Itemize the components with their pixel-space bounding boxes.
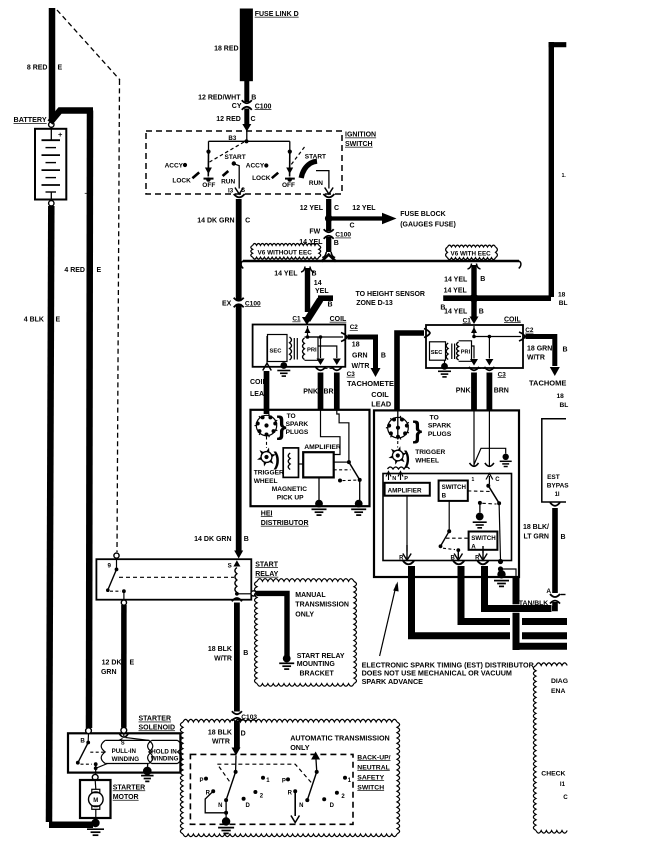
svg-text:BACK-UP/: BACK-UP/ xyxy=(357,754,390,761)
wire 18 BLK feed from top xyxy=(549,42,554,297)
svg-text:R: R xyxy=(288,791,293,797)
EST mid ground xyxy=(478,501,482,505)
ignition switch right rotor lever xyxy=(289,152,291,177)
svg-text:C: C xyxy=(334,205,339,212)
battery B- terminal xyxy=(49,201,54,206)
terminal B mid EST xyxy=(454,551,462,560)
leader arrow EST note xyxy=(380,585,397,657)
neutral switch left pole xyxy=(235,756,237,771)
back-up / neutral safety switch box xyxy=(190,754,353,824)
svg-text:S: S xyxy=(121,741,125,747)
ignition switch left pole feed xyxy=(208,141,210,150)
wire start relay mounting bracket xyxy=(256,593,287,657)
svg-text:PRI: PRI xyxy=(307,348,317,354)
svg-text:PICK UP: PICK UP xyxy=(277,494,304,501)
dashed contact links HEI xyxy=(334,469,351,471)
svg-text:RUN: RUN xyxy=(309,180,323,187)
pull-in winding xyxy=(123,733,125,736)
terminal solenoid to motor xyxy=(92,774,98,780)
svg-text:TRIGGER: TRIGGER xyxy=(254,470,284,477)
svg-text:PULL-IN: PULL-IN xyxy=(112,748,137,755)
svg-text:ENA: ENA xyxy=(551,688,565,695)
svg-text:A: A xyxy=(471,543,476,550)
svg-text:W/TR: W/TR xyxy=(214,655,232,662)
svg-text:12 YEL: 12 YEL xyxy=(300,205,324,212)
ground starter motor xyxy=(91,819,99,827)
ignition switch left rotor lever xyxy=(207,152,209,177)
svg-text:COIL: COIL xyxy=(371,390,389,399)
terminal S solenoid xyxy=(121,727,127,733)
wire 14 DK GRN xyxy=(236,199,242,553)
linkage dashed right xyxy=(291,147,305,165)
svg-text:B: B xyxy=(563,347,568,354)
svg-text:SPARK: SPARK xyxy=(428,423,451,430)
terminal C1 HEI coil xyxy=(302,317,312,325)
svg-text:B: B xyxy=(479,309,484,316)
svg-text:ZONE D-13: ZONE D-13 xyxy=(356,300,393,307)
callout V6 WITHOUT EEC xyxy=(253,244,319,246)
coil SEC winding EST xyxy=(430,342,446,360)
wire BRN inside distributor xyxy=(337,410,349,461)
contact ACCY left xyxy=(183,163,187,167)
wire coil lead EST xyxy=(397,333,424,410)
svg-text:LOCK: LOCK xyxy=(252,175,271,182)
coil internal wires to C3 EST xyxy=(488,337,490,359)
coil internal wire to C3 PNK xyxy=(320,337,322,358)
svg-text:(GAUGES FUSE): (GAUGES FUSE) xyxy=(400,221,456,228)
wire 4 RED battery to solenoid xyxy=(50,111,93,123)
svg-text:C: C xyxy=(563,794,568,801)
wire 18 BLK/LT GRN xyxy=(552,508,558,593)
svg-text:COIL: COIL xyxy=(330,316,347,323)
svg-text:I3: I3 xyxy=(228,188,234,195)
contacts right cluster xyxy=(286,777,290,781)
rotor shaft dashed EST xyxy=(397,441,399,448)
start relay box xyxy=(96,559,251,600)
trigger wheel EST xyxy=(392,450,403,461)
wire 14 YEL to bus xyxy=(326,237,331,252)
boundary dashed line xyxy=(57,10,120,80)
svg-text:YEL: YEL xyxy=(315,288,329,295)
svg-text:LOCK: LOCK xyxy=(172,177,191,184)
svg-text:B: B xyxy=(442,493,447,500)
svg-text:TACHOME: TACHOME xyxy=(529,379,566,388)
svg-text:R: R xyxy=(475,556,480,562)
svg-text:4 RED: 4 RED xyxy=(64,267,85,274)
switch B module xyxy=(439,481,468,501)
ignition coil EST xyxy=(426,325,523,368)
svg-text:CY: CY xyxy=(232,103,242,110)
svg-text:SAFETY: SAFETY xyxy=(357,774,384,781)
connector C3 HEI coil xyxy=(316,367,326,370)
svg-text:GRN: GRN xyxy=(101,669,117,676)
svg-text:B: B xyxy=(450,556,455,562)
ignition coil HEI xyxy=(253,325,346,367)
dashed link switch B xyxy=(468,490,491,493)
svg-text:C100: C100 xyxy=(335,232,351,239)
wire PNK inside distributor xyxy=(321,410,341,455)
coil SEC ground xyxy=(280,362,287,369)
wire coil lead HEI xyxy=(264,371,270,414)
wire 14 YEL right drop xyxy=(468,264,472,270)
svg-text:12 YEL: 12 YEL xyxy=(352,205,376,212)
magnetic pick up xyxy=(283,448,298,478)
svg-text:14 YEL: 14 YEL xyxy=(444,276,468,283)
connector C3 EST coil xyxy=(469,367,479,370)
wire EST B to bar2 xyxy=(461,566,567,622)
wire 14 YEL to coil C1 xyxy=(301,267,305,273)
contact ACCY right xyxy=(264,163,268,167)
start relay linkage dashed xyxy=(119,576,234,578)
wire 8 RED battery feed xyxy=(49,8,56,121)
svg-text:SPARK ADVANCE: SPARK ADVANCE xyxy=(362,677,424,686)
wire R jumper left cluster xyxy=(205,791,224,813)
svg-text:D: D xyxy=(246,803,251,809)
coil internal wire to C3 BRN xyxy=(318,346,337,358)
svg-text:SEC: SEC xyxy=(431,350,443,356)
fusible link FUSE LINK D xyxy=(240,9,252,81)
splice 12 YEL xyxy=(325,215,333,223)
svg-text:COIL: COIL xyxy=(504,316,521,323)
callout AUTOMATIC TRANSMISSION ONLY box xyxy=(183,719,397,722)
svg-text:SWITCH: SWITCH xyxy=(471,535,496,542)
wire BRN inside EST xyxy=(488,410,490,466)
wire 18 BLK W/TR lower xyxy=(234,721,240,749)
callout MANUAL TRANSMISSION ONLY box xyxy=(257,579,354,582)
svg-text:WINDING: WINDING xyxy=(151,756,179,763)
svg-text:+: + xyxy=(58,130,63,139)
wire PNK inside EST xyxy=(473,410,475,466)
svg-text:BRACKET: BRACKET xyxy=(300,671,335,678)
magnetic pick up EST xyxy=(388,467,410,469)
svg-text:BL: BL xyxy=(560,402,569,409)
EST pickup ground xyxy=(474,448,506,464)
svg-text:18: 18 xyxy=(352,342,360,349)
svg-text:BL: BL xyxy=(559,300,568,307)
ground hold-in winding xyxy=(147,764,149,769)
svg-text:}: } xyxy=(413,417,423,445)
svg-text:B: B xyxy=(381,353,386,360)
distributor cap xyxy=(256,415,276,435)
svg-text:14 YEL: 14 YEL xyxy=(274,271,298,278)
dashed link switch A xyxy=(446,537,468,539)
svg-text:C2: C2 xyxy=(350,324,359,331)
svg-text:WHEEL: WHEEL xyxy=(415,458,439,465)
wire 12 RED xyxy=(244,109,249,126)
wire 18 BLK W/TR xyxy=(234,603,240,712)
svg-text:SEC: SEC xyxy=(270,348,283,354)
svg-text:IGNITION: IGNITION xyxy=(345,132,376,139)
svg-text:BATTERY: BATTERY xyxy=(14,115,47,124)
svg-text:ACCY: ACCY xyxy=(165,163,184,170)
svg-text:WHEEL: WHEEL xyxy=(254,478,278,485)
switch lever HEI xyxy=(349,462,360,480)
svg-text:MOUNTING: MOUNTING xyxy=(297,661,336,668)
EST ground node right xyxy=(499,503,500,560)
coil core EST xyxy=(451,344,453,360)
EST coil primary lead entry xyxy=(424,329,430,338)
connector S below ignition switch xyxy=(234,194,245,197)
node module switch HEI xyxy=(347,460,351,464)
svg-text:MANUAL: MANUAL xyxy=(295,592,326,599)
svg-text:START RELAY: START RELAY xyxy=(297,653,345,660)
ignition switch bus wire xyxy=(246,132,248,142)
svg-text:ONLY: ONLY xyxy=(290,743,310,752)
svg-text:ONLY: ONLY xyxy=(295,611,314,618)
svg-text:TO: TO xyxy=(430,415,439,422)
svg-text:M: M xyxy=(93,798,98,804)
svg-text:18 GRN: 18 GRN xyxy=(527,345,552,352)
svg-text:PNK: PNK xyxy=(303,388,318,395)
battery B+ terminal xyxy=(49,122,54,127)
svg-text:18 BLK/: 18 BLK/ xyxy=(523,524,549,531)
coil SEC lead to cap xyxy=(266,336,268,363)
svg-text:N: N xyxy=(392,476,396,482)
svg-text:4 BLK: 4 BLK xyxy=(24,317,44,324)
svg-text:W/TR: W/TR xyxy=(212,739,230,746)
svg-text:TAN/BLK: TAN/BLK xyxy=(519,600,548,607)
amplifier module EST xyxy=(385,483,430,496)
svg-text:C100: C100 xyxy=(245,300,261,307)
svg-text:STARTER: STARTER xyxy=(113,784,146,791)
wire TAN/BLK xyxy=(552,602,555,609)
svg-text:OFF: OFF xyxy=(282,182,295,189)
svg-text:E: E xyxy=(130,660,135,667)
svg-text:TO HEIGHT SENSOR: TO HEIGHT SENSOR xyxy=(356,291,426,298)
svg-text:C3: C3 xyxy=(347,371,356,378)
svg-text:MAGNETIC: MAGNETIC xyxy=(272,486,307,493)
ignition key lever (engaged) xyxy=(301,161,317,178)
svg-text:B: B xyxy=(328,302,333,309)
svg-text:C: C xyxy=(350,223,355,230)
contact LOCK left xyxy=(192,172,199,178)
svg-text:PRI: PRI xyxy=(461,349,471,355)
svg-text:I1: I1 xyxy=(560,781,566,788)
svg-text:FUSE BLOCK: FUSE BLOCK xyxy=(400,211,446,218)
svg-text:SPARK: SPARK xyxy=(286,421,309,428)
starter motor box xyxy=(80,780,111,818)
svg-text:EST: EST xyxy=(547,474,560,481)
svg-text:HEI: HEI xyxy=(261,510,273,517)
starter solenoid box xyxy=(68,733,180,772)
svg-text:C: C xyxy=(251,116,256,123)
svg-text:E: E xyxy=(58,65,63,72)
svg-text:LT GRN: LT GRN xyxy=(523,533,549,540)
svg-text:14 YEL: 14 YEL xyxy=(444,287,468,294)
wire PNK xyxy=(318,373,324,410)
svg-text:18 RED: 18 RED xyxy=(214,45,239,52)
svg-text:TRANSMISSION: TRANSMISSION xyxy=(295,602,349,609)
svg-text:8 RED: 8 RED xyxy=(27,65,48,72)
svg-text:18 BLK: 18 BLK xyxy=(208,729,232,736)
amplifier output to R xyxy=(406,496,408,552)
svg-text:WINDING: WINDING xyxy=(112,756,140,763)
connector below start relay xyxy=(232,598,242,601)
start relay switch xyxy=(116,559,118,569)
svg-text:S: S xyxy=(228,563,232,570)
wire junction bar right xyxy=(443,295,551,301)
EST distributor box xyxy=(374,410,519,577)
svg-text:N: N xyxy=(299,803,303,809)
svg-text:LEAD: LEAD xyxy=(250,391,269,398)
svg-text:12 RED: 12 RED xyxy=(216,116,241,123)
svg-text:18: 18 xyxy=(558,291,566,298)
contact START left xyxy=(232,161,236,165)
neutral switch right pole xyxy=(311,752,320,760)
wire START to terminal S xyxy=(235,164,239,188)
svg-text:AUTOMATIC TRANSMISSION: AUTOMATIC TRANSMISSION xyxy=(290,733,390,742)
svg-text:D: D xyxy=(330,803,335,809)
contact OFF right xyxy=(285,178,295,180)
coil core xyxy=(293,338,295,360)
svg-text:EX: EX xyxy=(222,300,232,307)
svg-text:14 YEL: 14 YEL xyxy=(444,309,468,316)
svg-text:FUSE LINK D: FUSE LINK D xyxy=(255,11,299,18)
terminal B solenoid xyxy=(86,728,92,734)
contact LOCK right xyxy=(272,173,278,179)
wire BRN xyxy=(334,373,340,410)
svg-text:W/TR: W/TR xyxy=(352,363,370,370)
wire 18 GRN W/TR tachometer lead xyxy=(348,337,376,368)
svg-text:): ) xyxy=(274,450,280,471)
svg-text:P: P xyxy=(282,779,286,785)
svg-text:CHECK: CHECK xyxy=(541,770,565,777)
svg-text:AMPLIFIER: AMPLIFIER xyxy=(388,488,422,495)
svg-text:C: C xyxy=(495,477,500,483)
svg-text:START: START xyxy=(255,561,279,568)
svg-text:FW: FW xyxy=(309,228,320,235)
svg-text:GRN: GRN xyxy=(352,353,368,360)
connector below EST B mid xyxy=(453,561,464,564)
svg-text:DISTRIBUTOR: DISTRIBUTOR xyxy=(261,520,309,527)
wire RUN contact to terminal S right xyxy=(316,171,329,189)
connector below EST bypass xyxy=(550,502,560,505)
wire PNK EST xyxy=(471,373,477,410)
terminal B3 arrow into ignition switch xyxy=(242,124,251,132)
svg-text:W/TR: W/TR xyxy=(527,355,545,362)
svg-text:9: 9 xyxy=(108,563,112,570)
distributor cap EST xyxy=(397,410,399,440)
svg-text:18: 18 xyxy=(557,393,565,400)
svg-text:C100: C100 xyxy=(255,103,272,110)
svg-text:BRN: BRN xyxy=(324,388,339,395)
svg-text:E: E xyxy=(56,317,61,324)
svg-text:V6 WITHOUT EEC: V6 WITHOUT EEC xyxy=(258,250,313,257)
svg-text:B: B xyxy=(243,650,248,657)
coil PRI winding xyxy=(303,338,305,360)
EST switch C lever xyxy=(486,484,490,488)
pull-in winding to motor terminal xyxy=(97,764,108,769)
ground right inside HEI xyxy=(359,480,361,501)
svg-text:C2: C2 xyxy=(525,327,534,334)
wire 12 DK GRN xyxy=(121,605,127,728)
svg-text:12 DK: 12 DK xyxy=(102,660,122,667)
wire 18 GRN W/TR tach lead EST xyxy=(526,337,555,367)
connector below EST R right xyxy=(477,561,488,564)
svg-text:TRIGGER: TRIGGER xyxy=(415,449,445,456)
svg-text:STARTER: STARTER xyxy=(139,716,172,723)
wire EST ground out to bar4 xyxy=(513,578,520,604)
wire pickup to amplifier xyxy=(299,463,304,465)
pick up leads N P xyxy=(386,472,391,481)
svg-text:SWITCH: SWITCH xyxy=(442,484,467,491)
rotor shaft dashed xyxy=(266,437,268,449)
svg-text:BRN: BRN xyxy=(494,387,509,394)
wire 4 BLK battery ground cable xyxy=(49,206,51,822)
contacts left cluster xyxy=(204,777,208,781)
svg-text:N: N xyxy=(218,803,222,809)
connector C100 EX xyxy=(232,301,245,304)
battery xyxy=(35,129,66,200)
svg-text:LEAD: LEAD xyxy=(371,400,391,409)
svg-text:C3: C3 xyxy=(498,371,507,378)
connector below EST R left xyxy=(403,561,414,564)
wire EST R to bar1 xyxy=(412,566,568,636)
svg-text:B: B xyxy=(480,276,485,283)
svg-text:C1: C1 xyxy=(292,316,301,323)
svg-text:C1: C1 xyxy=(463,317,472,324)
wire back-up to lights xyxy=(294,791,296,816)
terminal R left EST xyxy=(403,545,411,560)
terminal C2 EST coil xyxy=(519,332,525,341)
svg-text:18 BLK: 18 BLK xyxy=(208,646,232,653)
svg-text:COIL: COIL xyxy=(250,379,267,386)
svg-text:C: C xyxy=(245,218,250,225)
terminal C2 HEI coil xyxy=(341,333,347,342)
linkage dashed transmission xyxy=(217,764,311,782)
crossover breaks in bars at ground wire xyxy=(510,631,522,641)
wire neutral contact to ground xyxy=(225,800,227,818)
svg-text:RUN: RUN xyxy=(221,178,235,185)
EST bypass module box xyxy=(542,419,566,502)
ignition switch box xyxy=(146,131,342,194)
switch A module xyxy=(469,532,498,550)
svg-text:1: 1 xyxy=(472,477,475,483)
svg-text:B: B xyxy=(244,536,249,543)
wire BRN EST xyxy=(486,373,492,410)
svg-text:SWITCH: SWITCH xyxy=(345,141,373,148)
hold-in winding xyxy=(148,740,152,763)
terminal C inside EST xyxy=(486,474,493,485)
contact OFF left xyxy=(204,178,214,180)
wire 14 YEL branch to height sensor xyxy=(318,295,333,301)
callout V6 WITH EEC xyxy=(448,245,496,247)
svg-text:ACCY: ACCY xyxy=(246,163,265,170)
svg-text:): ) xyxy=(404,448,410,468)
svg-text:PLUGS: PLUGS xyxy=(428,431,452,438)
wire 12 YEL to fuse block arrow xyxy=(331,216,384,220)
terminal C1 EST coil xyxy=(470,317,479,325)
terminal start relay to solenoid xyxy=(121,600,126,605)
terminal R right EST xyxy=(482,550,484,553)
ground start relay bracket xyxy=(279,662,294,664)
svg-text:SOLENOID: SOLENOID xyxy=(139,724,176,731)
svg-text:14: 14 xyxy=(314,280,322,287)
svg-text:AMPLIFIER: AMPLIFIER xyxy=(304,444,341,451)
switch B output lever xyxy=(448,501,450,530)
svg-text:P: P xyxy=(404,476,408,482)
svg-text:P: P xyxy=(199,778,203,784)
svg-text:HOLD IN: HOLD IN xyxy=(151,748,177,755)
svg-text:D: D xyxy=(241,731,246,738)
ground amplifier HEI xyxy=(318,477,320,501)
svg-text:B: B xyxy=(334,240,339,247)
wire EST R right to TAN/BLK bar xyxy=(485,566,552,609)
coil SEC ground EST xyxy=(444,360,446,364)
connector C100 CY xyxy=(240,104,253,107)
contact RUN left xyxy=(223,171,229,176)
svg-text:DIAG: DIAG xyxy=(551,678,568,685)
